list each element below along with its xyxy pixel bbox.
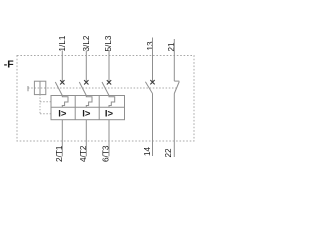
breaker contact pole 3 cross <box>107 80 111 84</box>
svg-text:I>: I> <box>58 109 67 120</box>
wire pole 3 to terminal 6/T3 <box>108 120 110 157</box>
breaker contact pole 2 cross <box>84 80 88 84</box>
svg-text:1/L1: 1/L1 <box>58 35 67 51</box>
wire aux contact to terminal 22 <box>173 94 175 158</box>
manual operating mechanism square <box>34 81 45 94</box>
auxiliary NO contact 13-14 moving contact <box>145 82 152 94</box>
release block column divider 1 <box>74 96 76 120</box>
wire terminal 21 to contact <box>173 39 175 81</box>
breaker contact pole 1 cross <box>60 80 64 84</box>
svg-text:3/L2: 3/L2 <box>82 35 91 51</box>
svg-text:6/T3: 6/T3 <box>102 145 111 162</box>
trip linkage branch to magnetic release <box>40 113 51 115</box>
breaker contact pole 1 moving contact <box>55 82 62 96</box>
breaker contact pole 2 moving contact <box>79 82 86 96</box>
enclosure dashed boundary <box>17 56 194 142</box>
svg-text:I>: I> <box>105 109 114 120</box>
release block outline <box>51 96 125 120</box>
trip linkage vertical dotted <box>39 95 41 114</box>
release block row divider <box>51 106 125 108</box>
svg-text:2/T1: 2/T1 <box>55 145 64 162</box>
auxiliary NC contact 21-22 seat bar <box>174 80 179 82</box>
wire terminal 5/L3 to contact <box>108 51 110 83</box>
release block column divider 2 <box>98 96 100 120</box>
wire terminal 3/L2 to contact <box>85 51 87 83</box>
linkage end T-bar <box>27 86 29 91</box>
mechanical linkage dash-dot line <box>28 87 177 89</box>
thermal overload release pole 1 <box>62 96 68 108</box>
svg-text:13: 13 <box>146 41 155 51</box>
wire terminal 1/L1 to contact <box>61 51 63 83</box>
auxiliary NO contact 13-14 cross <box>150 80 154 84</box>
svg-text:-F: -F <box>4 58 14 70</box>
svg-text:4/T2: 4/T2 <box>79 145 88 162</box>
wire terminal 13 to contact <box>152 38 154 83</box>
auxiliary NC contact 21-22 moving contact <box>174 82 179 94</box>
breaker contact pole 3 moving contact <box>102 82 109 96</box>
trip linkage branch to thermal release <box>40 101 51 103</box>
wire pole 2 to terminal 4/T2 <box>85 120 87 157</box>
operating mechanism vertical axis <box>39 82 41 95</box>
svg-text:I>: I> <box>82 109 91 120</box>
svg-text:14: 14 <box>143 146 152 156</box>
thermal overload release pole 2 <box>86 96 92 108</box>
svg-text:22: 22 <box>164 148 173 158</box>
wire pole 1 to terminal 2/T1 <box>61 120 63 157</box>
wire aux contact to terminal 14 <box>152 94 154 157</box>
thermal overload release pole 3 <box>109 96 115 108</box>
svg-text:5/L3: 5/L3 <box>104 35 113 51</box>
svg-text:21: 21 <box>167 42 176 52</box>
